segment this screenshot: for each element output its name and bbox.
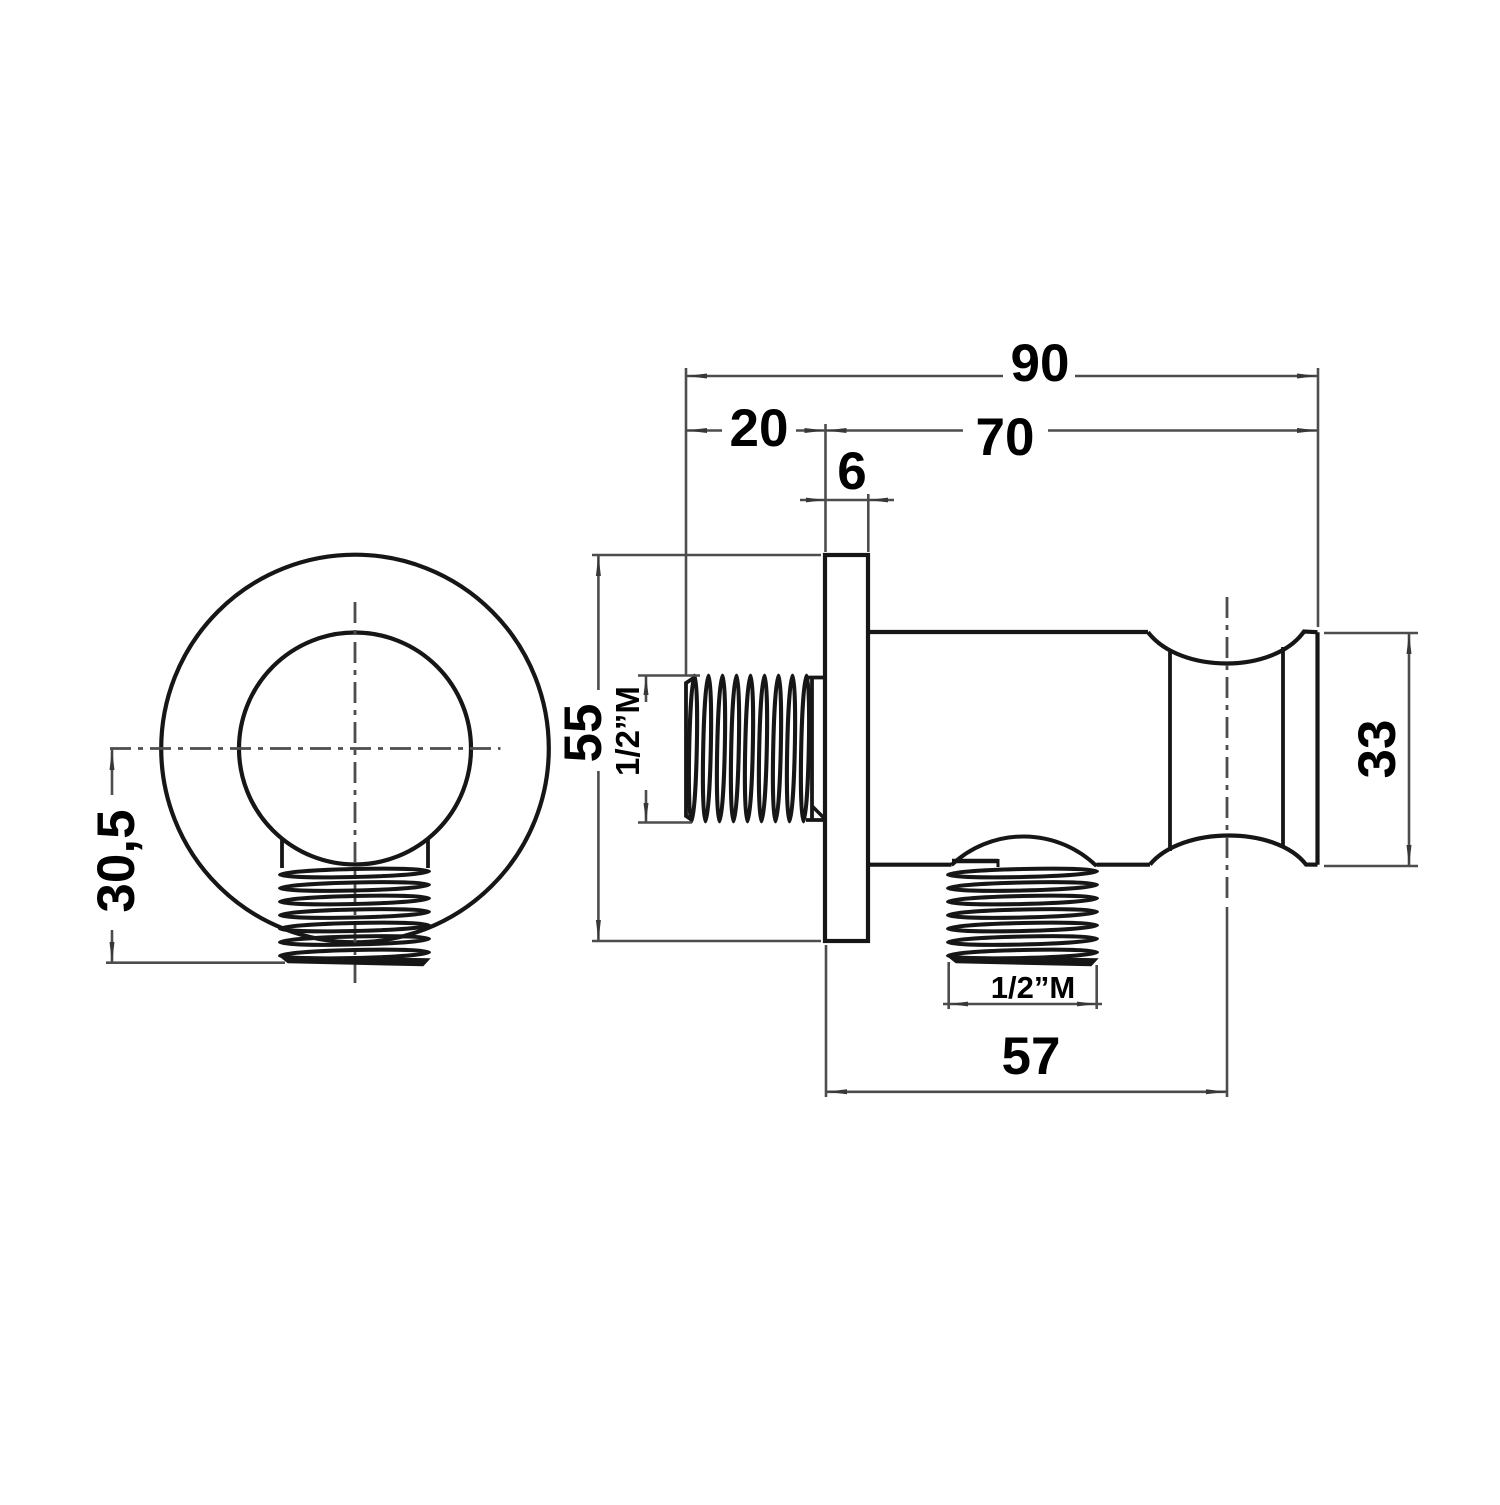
svg-text:30,5: 30,5	[87, 809, 146, 912]
ext line right cap (90/70)	[1317, 368, 1320, 627]
svg-text:57: 57	[1002, 1027, 1061, 1086]
dim line 1/2M bottom	[943, 1003, 1102, 1006]
holder neck line	[1168, 650, 1172, 851]
ext line flange right (6)	[867, 494, 870, 552]
holder cap right face	[1315, 632, 1319, 865]
dim line 30,5	[111, 750, 114, 796]
dim line 90	[686, 375, 1003, 378]
horizontal centerline	[110, 747, 501, 750]
back thread bottom-right chamfer	[812, 806, 824, 818]
90 arrows	[686, 374, 707, 379]
20 arrows	[686, 428, 707, 433]
ext line 57 right (centerline extension)	[1226, 907, 1229, 1097]
dim line 6	[800, 499, 894, 502]
outlet thread start notch	[952, 859, 998, 864]
holder saddle bottom contour	[1150, 835, 1318, 864]
front thread bottom chamfer	[281, 957, 430, 966]
outer circle (flange face)	[161, 555, 549, 943]
body bottom line left of outlet	[868, 863, 952, 867]
33 arrows	[1407, 633, 1412, 654]
30,5 arrows	[110, 750, 115, 771]
back inlet thread coil (1/2"M)	[688, 676, 811, 822]
ext lines 1/2M left port	[638, 674, 700, 677]
svg-text:1/2”M: 1/2”M	[991, 970, 1075, 1005]
thread shank left line	[280, 839, 284, 869]
ext lines 1/2M bottom	[947, 962, 950, 1009]
bottom outlet thread chamfer	[949, 957, 1098, 966]
svg-text:90: 90	[1011, 334, 1070, 393]
ext lines 33	[1324, 632, 1418, 635]
55 arrows	[596, 555, 601, 576]
ext line 57 left	[825, 945, 828, 1097]
svg-text:1/2”M: 1/2”M	[609, 686, 646, 776]
svg-text:20: 20	[730, 399, 789, 458]
arrowheads	[110, 374, 1412, 1095]
bottom outlet thread coil (1/2"M)	[948, 867, 1097, 959]
body bottom line right of outlet	[1097, 863, 1151, 867]
svg-text:6: 6	[837, 442, 866, 501]
thread shank right line	[426, 839, 430, 869]
dim line 55	[597, 555, 600, 690]
dim line 20/70	[686, 429, 722, 432]
dim line 33	[1408, 633, 1411, 866]
holder dashed centerline	[1226, 597, 1229, 905]
ext lines 55	[592, 554, 821, 557]
back thread lead-in edge	[686, 677, 695, 820]
dim line 1/2M left	[645, 676, 648, 703]
vertical centerline	[354, 602, 357, 988]
inner circle (body boss)	[239, 633, 471, 865]
body top line	[868, 630, 1148, 634]
6 arrows (outside, pointing inward)	[806, 498, 826, 503]
holder saddle top contour	[1148, 632, 1318, 664]
ext line left of back thread (90/20)	[685, 368, 688, 676]
holder cone-cap crease line	[1281, 647, 1285, 848]
back thread end line	[810, 678, 814, 821]
front thread coil	[280, 867, 429, 959]
1/2M left arrows	[644, 676, 649, 696]
dim line 57	[826, 1091, 1227, 1094]
wall flange plate	[825, 555, 868, 941]
svg-text:70: 70	[976, 408, 1035, 467]
svg-text:55: 55	[554, 704, 613, 763]
1/2M bottom arrows	[949, 1002, 968, 1007]
back thread root lines at flange	[806, 676, 825, 680]
ext line 30,5 bottom	[106, 961, 285, 964]
57 arrows	[826, 1089, 847, 1094]
outlet dome	[952, 836, 1097, 866]
ext line flange left (70/6/20)	[824, 424, 827, 552]
svg-text:33: 33	[1348, 720, 1407, 779]
70 arrows	[826, 428, 847, 433]
